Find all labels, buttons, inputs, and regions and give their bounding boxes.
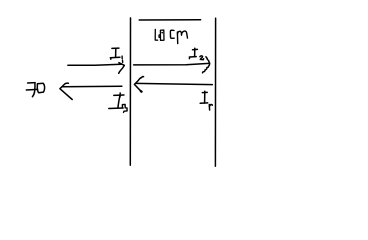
label I1 : subscript 1 [121, 56, 124, 62]
dimension overline for 18 cm [139, 19, 200, 21]
label Iy [200, 91, 208, 103]
label 18 cm : digit 8 [159, 30, 164, 40]
arrow line Iy (pointing left, between boundaries) [136, 83, 212, 84]
label I2 : subscript 2 [200, 56, 204, 60]
arrowhead I2 [203, 57, 210, 73]
arrowhead I1 [119, 63, 125, 74]
label 70 : digit 0 [37, 83, 44, 92]
label I1 [110, 48, 120, 59]
label 70 : digit 7 [26, 83, 37, 97]
right boundary line [214, 18, 216, 166]
arrow line I1 (pointing right, left side) [68, 63, 121, 66]
left boundary line [129, 18, 131, 165]
label I3 : subscript 3 [122, 104, 127, 112]
arrowhead Iy [134, 77, 143, 92]
label I3 [109, 93, 124, 109]
label I2 [189, 48, 197, 58]
label 18 cm : letter c [170, 30, 174, 38]
arrow line I2 (pointing right) [134, 63, 209, 65]
label 18 cm : digit 1 [155, 29, 157, 40]
label Iy : subscript y [209, 105, 212, 111]
label 18 cm : letter m [177, 31, 187, 44]
arrow line I3 (pointing left, left side) [62, 85, 121, 88]
arrowhead I3 [60, 83, 72, 99]
